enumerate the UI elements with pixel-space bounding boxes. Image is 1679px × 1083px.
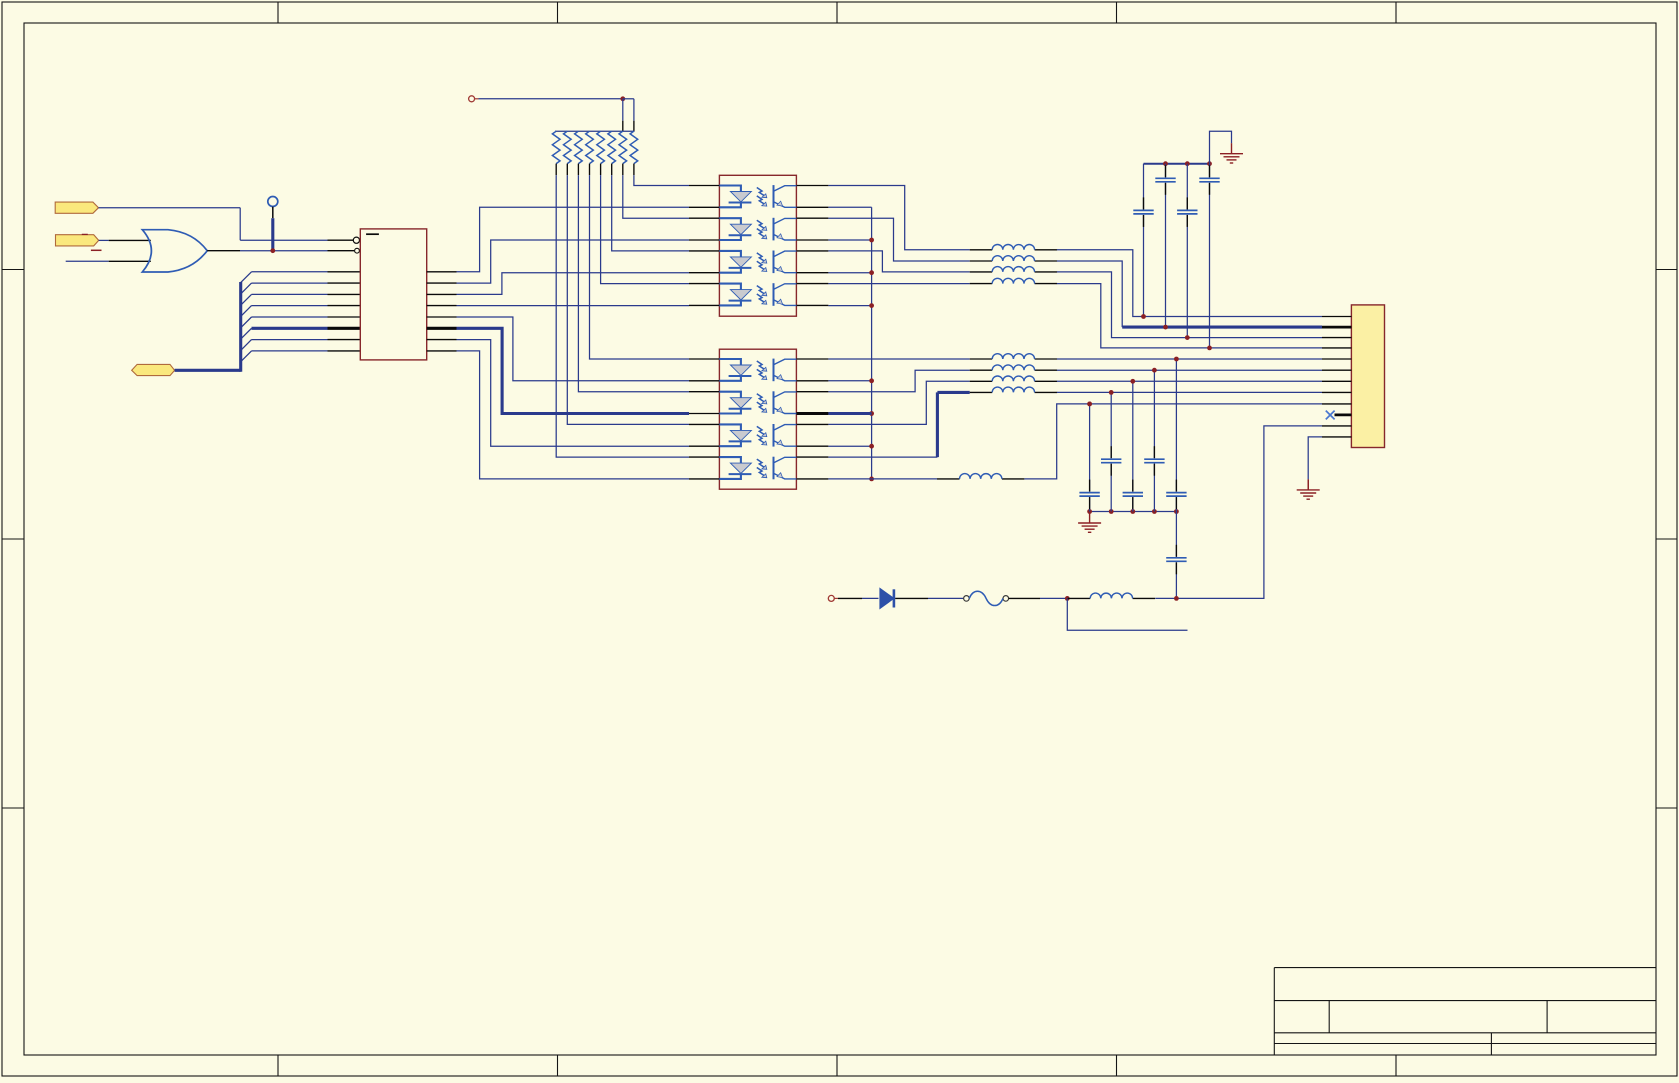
wire IC pin13 to opto U3 cathode3	[457, 273, 690, 295]
wire corner down to IC pin1 row	[239, 208, 241, 241]
wire U3 collector3 to L3	[828, 251, 969, 272]
terminal T1 (open circle, top)	[469, 96, 475, 102]
wire connector pin12 to ground	[1308, 437, 1322, 480]
OR gate U2	[142, 230, 207, 272]
wire U3 emitter1 to bus	[828, 206, 871, 208]
wire diode to fuse	[928, 597, 963, 599]
wire IC pin16 to opto U4 cathode2 (bold)	[457, 328, 690, 413]
IC right pin 15 stub	[427, 316, 457, 318]
IC left pin 4 stub	[328, 282, 361, 284]
junction emitter bus	[869, 444, 874, 449]
left margin ticks	[2, 269, 24, 271]
IC pin2 inversion bubble	[355, 248, 360, 253]
capacitor C7	[1123, 381, 1143, 511]
bold wire port P3 to bus	[175, 369, 241, 372]
fuse F1 right pin	[1009, 597, 1040, 599]
resistor R4	[586, 131, 594, 175]
wire down to R7	[622, 99, 624, 121]
connector J1 pin 1 stub	[1322, 316, 1351, 318]
IC right pin 13 stub	[427, 293, 457, 295]
inductor L10	[1068, 593, 1155, 598]
wire IC pin11 to opto U3 cathode1	[457, 207, 690, 271]
connector J1 pin 6 stub	[1322, 369, 1351, 371]
wire U4 emitter4 to bus	[828, 478, 871, 480]
wire L8 to connector pin8	[1057, 391, 1322, 393]
bus vertical (bold)	[239, 282, 242, 372]
no-connect terminal circle	[268, 197, 278, 207]
IC U1	[360, 229, 426, 360]
connector J1 pin 5 stub	[1322, 358, 1351, 360]
net label tick 2	[91, 249, 102, 251]
emitter common bus vertical	[871, 207, 873, 479]
junction cap bus	[1163, 161, 1168, 166]
wire to IC pin1	[240, 239, 327, 241]
junction C2 to pin2 net	[1163, 325, 1168, 330]
junction emitter bus	[869, 303, 874, 308]
capacitor C3	[1177, 164, 1197, 338]
optocoupler U3 channel 1	[689, 185, 828, 208]
wire R1 to opto anode	[556, 175, 689, 457]
inductor L4	[970, 278, 1057, 283]
wire R7 to opto anode	[623, 175, 689, 218]
junction C5 to pin9 net	[1087, 402, 1092, 407]
wire U4 collector3 to L7	[828, 381, 969, 424]
wire port P2 to OR gate	[99, 239, 109, 241]
wire U4 emitter3 to bus	[828, 445, 871, 447]
R7 top pin stub	[622, 121, 624, 132]
wire R5 to opto anode	[601, 175, 689, 284]
wire IC pin15 to opto U4 cathode1	[457, 317, 690, 381]
resistor top common wire	[555, 130, 635, 132]
optocoupler U4 channel 3	[689, 424, 828, 447]
connector J1 pin 4 stub	[1322, 347, 1351, 349]
junction lower cap bus	[1130, 509, 1135, 514]
optocoupler U4 channel 2	[689, 391, 828, 414]
junction on pin9 net	[1087, 402, 1092, 407]
inductor L5	[970, 354, 1057, 359]
IC left pin 9 stub	[328, 339, 361, 341]
wire L7 to connector pin7	[1057, 380, 1322, 382]
IC left pin 6 stub	[328, 305, 361, 307]
bus branch 8	[241, 351, 252, 362]
port P3 (bidirectional, lower left)	[132, 364, 175, 375]
optocoupler U4 channel 1	[689, 359, 828, 382]
IC left pin 7 stub	[328, 316, 361, 318]
ground GND3	[1297, 479, 1320, 499]
junction emitter bus	[869, 411, 874, 416]
bus branch 4	[241, 306, 252, 317]
top margin ticks	[277, 2, 279, 23]
optocoupler U4 box	[719, 349, 796, 489]
connector J1 pin 3 stub	[1322, 337, 1351, 339]
wire R3 to opto anode	[578, 175, 689, 392]
R8 top pin stub	[633, 121, 635, 132]
optocoupler U4 channel 4	[689, 457, 828, 480]
capacitor C9	[1166, 359, 1186, 512]
wire L3 to connector pin3	[1057, 272, 1322, 338]
bus branch 6	[241, 328, 252, 339]
wire U4 collector1 to L5	[828, 358, 969, 360]
capacitor C2	[1155, 164, 1175, 327]
bus branch 5	[241, 317, 252, 328]
port P2 (sheet entry, second)	[56, 235, 99, 246]
OR gate input pin 1	[109, 239, 151, 241]
resistor R8	[630, 131, 638, 175]
connector J1 pin 10 stub	[1335, 413, 1352, 416]
optocoupler U3 channel 2	[689, 218, 828, 241]
wire U3 emitter3 to bus	[828, 272, 871, 274]
wire cap bus to ground	[1210, 131, 1232, 163]
junction C1 to pin1 net	[1141, 314, 1146, 319]
junction C9 to pin5 net	[1174, 357, 1179, 362]
capacitor C1	[1133, 164, 1153, 317]
wire U3 emitter4 to bus	[828, 305, 871, 307]
connector J1 pin 7 stub	[1322, 380, 1351, 382]
junction lower cap bus	[1152, 509, 1157, 514]
IC right pin 12 stub	[427, 282, 457, 284]
bus branch 3	[241, 294, 252, 305]
wire IC pin12 to opto U3 cathode2	[457, 240, 690, 283]
wire emitter bus to inductor L9	[872, 478, 937, 480]
wire L1 to connector pin1	[1057, 250, 1322, 317]
wire L10 to output node	[1155, 597, 1176, 599]
IC left pin 5 stub	[328, 293, 361, 295]
junction resistor top node	[620, 96, 625, 101]
bold wire U4 emitter2 to bus	[796, 412, 828, 415]
connector J1 pin 2 stub	[1322, 326, 1351, 329]
capacitor C4	[1199, 164, 1219, 348]
junction cap bus	[1185, 161, 1190, 166]
wire U4 collector4 to L8 (bold riser)	[828, 456, 937, 458]
wire port P1 to corner	[99, 207, 241, 209]
junction on OR output net	[270, 248, 275, 253]
ground GND1	[1220, 143, 1243, 163]
bus branch 2	[241, 283, 252, 294]
connector J1 pin 8 stub	[1322, 391, 1351, 393]
resistor R5	[597, 131, 605, 175]
wire fuse to node	[1040, 597, 1067, 599]
wire down to R8	[633, 99, 635, 121]
terminal T2 (open circle, bottom)	[828, 595, 834, 601]
IC left pin 3 stub	[328, 271, 361, 273]
resistor R6	[608, 131, 616, 175]
wire R8 to opto anode	[634, 175, 689, 185]
wire R2 to opto anode	[567, 175, 689, 424]
inductor L3	[970, 267, 1057, 272]
wire U3 emitter2 to bus	[828, 239, 871, 241]
IC pin1 inversion bubble	[353, 237, 359, 243]
inductor L1	[970, 244, 1057, 249]
junction output node	[1174, 596, 1179, 601]
wire L6 to connector pin6	[1057, 369, 1322, 371]
optocoupler U3 box	[719, 175, 796, 316]
lower cap bank bottom bus	[1090, 511, 1177, 513]
junction C3 to pin3 net	[1185, 335, 1190, 340]
IC right pin 18 stub	[427, 350, 457, 352]
title block	[1274, 968, 1656, 1055]
wire OR output to IC pin2	[240, 250, 328, 252]
no-ERC cross on J1 pin10	[1326, 411, 1335, 420]
capacitor C10	[1166, 512, 1186, 599]
inductor L9	[937, 474, 1024, 479]
inductor L7	[970, 376, 1057, 381]
OR gate output pin	[207, 250, 240, 252]
junction lower cap bus	[1109, 509, 1114, 514]
port P1 (sheet entry, top left)	[55, 202, 98, 213]
wire U3 collector4 to L4	[828, 283, 969, 285]
wire U3 collector2 to L2	[828, 218, 969, 261]
junction C6 to pin8 net	[1109, 390, 1114, 395]
wire L5 to connector pin5	[1057, 358, 1322, 360]
wire U3 collector1 to L1	[828, 186, 969, 250]
IC right pin 17 stub	[427, 339, 457, 341]
inductor L6	[970, 365, 1057, 370]
optocoupler U3 channel 3	[689, 251, 828, 274]
terminal pin stub	[272, 207, 274, 219]
fuse F1	[964, 591, 1009, 605]
IC left pin 8 stub	[328, 327, 361, 330]
wire U4 collector2 to L6	[828, 370, 969, 392]
wire L2 to connector pin2 (bold)	[1057, 261, 1122, 327]
IC pin1 stub	[328, 239, 354, 241]
junction emitter bus	[869, 378, 874, 383]
bottom margin ticks	[277, 1055, 279, 1076]
connector J1 pin 11 stub	[1322, 425, 1351, 427]
connector J1	[1351, 305, 1384, 448]
wire terminal to OR output (bold)	[271, 218, 274, 251]
junction emitter bus	[869, 477, 874, 482]
resistor R2	[564, 131, 572, 175]
bus branch 1	[241, 272, 252, 283]
wire IC pin17 to opto U4 cathode3	[457, 340, 690, 447]
wire L9 to connector pin9	[1024, 404, 1322, 479]
resistor R1	[552, 131, 560, 175]
diode D1 cathode pin	[895, 597, 928, 599]
wire R4 to opto anode	[590, 175, 690, 359]
wire junction to R8 column	[623, 98, 634, 100]
connector J1 pin 9 stub	[1322, 403, 1351, 405]
IC pin2 stub	[328, 250, 355, 252]
junction lower cap bus	[1174, 509, 1179, 514]
wire R6 to opto anode	[612, 175, 689, 251]
junction at L10 input	[1065, 596, 1070, 601]
stub wire down-right from node	[1067, 598, 1187, 630]
junction cap bus	[1207, 161, 1212, 166]
resistor R7	[619, 131, 627, 175]
junction C4 to pin4 net	[1207, 346, 1212, 351]
optocoupler U3 channel 4	[689, 283, 828, 306]
IC left pin 10 stub	[328, 350, 361, 352]
wire OR input 2	[66, 260, 109, 262]
IC right pin 11 stub	[427, 271, 457, 273]
junction C7 to pin7 net	[1130, 379, 1135, 384]
capacitor C5	[1079, 404, 1099, 512]
net label tick 1	[82, 233, 88, 235]
right margin ticks	[1656, 269, 1677, 271]
junction C8 to pin6 net	[1152, 368, 1157, 373]
wire IC pin14 to opto U3 cathode4	[457, 305, 690, 307]
ground GND2	[1078, 513, 1101, 533]
OR gate input pin 2	[109, 260, 151, 262]
capacitor C6	[1101, 392, 1121, 511]
upper cap bank top bus	[1144, 163, 1210, 165]
junction emitter bus	[869, 238, 874, 243]
bus branch 7	[241, 340, 252, 351]
junction emitter bus	[869, 270, 874, 275]
connector J1 pin 12 stub	[1322, 436, 1351, 438]
resistor R3	[575, 131, 583, 175]
IC right pin 16 stub	[427, 327, 457, 330]
diode D1 anode pin	[838, 597, 862, 599]
wire terminal to resistor top node	[479, 98, 623, 100]
wire IC pin18 to opto U4 cathode4	[457, 351, 690, 479]
IC right pin 14 stub	[427, 305, 457, 307]
diode D1	[880, 588, 894, 608]
wire L4 to connector pin4	[1057, 284, 1322, 348]
junction lower cap bus	[1087, 509, 1092, 514]
inductor L2	[970, 256, 1057, 261]
pin1 name overline	[366, 233, 379, 235]
wire to diode	[862, 597, 879, 599]
wire connector pin11 down to output node	[1176, 426, 1322, 599]
capacitor C8	[1144, 370, 1164, 511]
inductor L8	[970, 387, 1057, 392]
wire U4 emitter1 to bus	[828, 380, 871, 382]
